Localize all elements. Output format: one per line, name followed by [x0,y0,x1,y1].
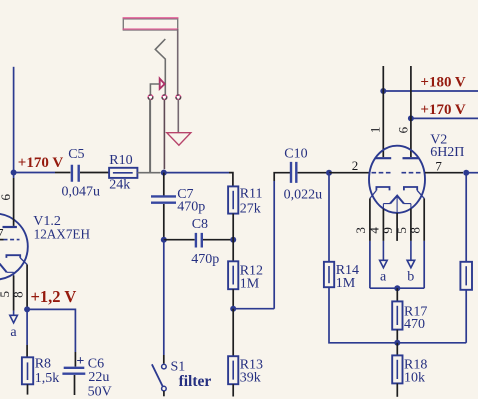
wire node to R8 [26,309,28,345]
svg-text:0,022u: 0,022u [284,188,323,203]
wire from jack sleeve terminal down [177,100,179,133]
heater V1.2 [0,261,7,273]
resistor R12 [228,261,238,289]
wire node E to V2 grid pin 2 [329,172,369,174]
capacitor C7 [151,196,176,202]
node +170V junction [11,170,17,176]
plate V2 left [375,157,391,159]
arrow a [380,260,388,267]
svg-text:8: 8 [10,291,25,298]
node pin6/+170 [408,115,414,121]
svg-text:7: 7 [0,225,4,240]
wire heater pin 5 [410,209,412,241]
plate V1.2 [3,226,17,228]
wire from jack tip terminal down [163,100,165,170]
svg-text:b: b [407,269,414,284]
wire node F to right resistor [465,173,467,262]
wire node A down to C7 [163,173,165,196]
svg-text:12AX7EH: 12AX7EH [34,227,91,242]
wire node D to R13 [232,309,234,357]
svg-text:1M: 1M [240,276,260,291]
wire R18 down [396,383,398,396]
svg-text:470: 470 [404,317,425,332]
resistor R18 [392,355,402,383]
node cathode V1.2 [24,306,30,312]
svg-text:+: + [76,354,84,369]
capacitor C5 [72,165,79,182]
resistor R (right, label off-canvas) [460,262,472,290]
svg-text:6: 6 [396,126,411,133]
node F [463,170,469,176]
resistor R13 [228,356,238,384]
+170 V rail [411,117,478,119]
svg-text:1: 1 [367,127,382,134]
wire cathode pin 8 [26,265,28,310]
svg-text:4: 4 [367,227,382,234]
grid V2 left (pin 2) [372,172,393,174]
node B [161,237,167,243]
heater V2 [390,196,404,204]
svg-text:a: a [380,269,387,284]
capacitor C6 (electrolytic) [62,368,85,374]
wire jack sleeve (right vertical) [177,29,179,95]
svg-text:27k: 27k [240,202,261,217]
capacitor C8 [196,233,202,248]
jack switch arrow [160,79,165,89]
svg-text:+170 V: +170 V [18,155,64,171]
wire right resistor to bottom rail [465,290,467,343]
wire +170V feed (left vertical) [13,67,15,173]
resistor R17 [392,301,402,329]
jack tip lever [155,39,165,95]
node cathode V2 [394,285,400,291]
wire heater pin 4 [382,209,384,241]
svg-text:50V: 50V [88,384,112,399]
wire bottom rail [394,342,466,344]
wire plate lead pin 1 [382,66,384,157]
svg-text:R11: R11 [240,186,263,201]
wire R17 to node G [396,330,398,343]
capacitor C10 [291,162,296,183]
wire cathode pin 3 [369,198,371,241]
svg-text:22u: 22u [88,370,109,385]
resistor R8 [22,357,33,384]
wire node C to R12 [232,240,234,262]
plate V2 right [403,157,419,159]
wire cathode net [370,287,424,289]
wire C7 to node B [163,204,165,240]
wire R13 down [232,384,234,396]
svg-text:24k: 24k [109,178,130,193]
resistor R14 [324,262,334,287]
arrow a (heater supply) [10,315,18,323]
wire to switch arrow [150,84,159,95]
node G [394,340,400,346]
svg-text:1M: 1M [336,276,356,291]
svg-text:a: a [10,325,17,340]
wire R11 to node C [232,214,234,240]
cathode V1.2 [6,255,20,258]
wire node F to right edge [466,172,478,174]
cathode V2 right [404,187,417,190]
wire from jack switch terminal down [150,100,160,173]
grid V1.2 (pin 7) [0,239,4,241]
node D [230,306,236,312]
wire node D to C10 branch [233,181,274,309]
wire cathode pin 8 [423,198,425,241]
svg-text:470p: 470p [191,252,219,267]
wire node B down to S1 [163,240,165,355]
wire C5 to R10 [80,172,109,174]
svg-text:2: 2 [352,158,359,173]
wire node A to R11 [164,172,229,174]
wire shield pin 9 [396,197,398,213]
wire R14 to bottom rail [329,287,394,343]
svg-text:C5: C5 [68,147,84,162]
wire C6 down [74,375,76,395]
node C [230,237,236,243]
wire node B to C8 [164,239,195,241]
svg-text:1,5k: 1,5k [35,371,60,386]
jack body rectangle [123,18,177,31]
arrow b [407,260,415,267]
svg-text:6: 6 [0,193,13,200]
wire plate lead pin 6 [13,173,15,178]
wire node G to R18 [396,343,398,356]
svg-text:+170 V: +170 V [420,102,466,118]
wire node to C6 [27,309,75,352]
node pin1/+180 [380,88,386,94]
wire pin 7 to node F [425,172,463,174]
svg-text:9: 9 [380,227,395,234]
wire R12 to node D [232,289,234,309]
wire C10 to node E [298,172,329,174]
svg-text:C10: C10 [284,147,307,162]
svg-text:+1,2 V: +1,2 V [31,287,77,306]
wire heater pin 5 [13,275,15,310]
jack terminal circles [148,95,153,100]
svg-text:0,047u: 0,047u [62,184,101,199]
tube V2 envelope [369,146,425,213]
svg-text:+180 V: +180 V [420,75,466,91]
cathode V2 left [376,187,389,190]
grid V2 right (pin 7) [402,172,423,174]
wire node to R17 [396,288,398,301]
wire R10 to jack switch [137,100,150,173]
wire node E to R14 [328,173,330,262]
svg-text:10k: 10k [404,371,425,386]
node A main junction [161,170,167,176]
tube V1.2 envelope [0,214,28,280]
node E [326,170,332,176]
ground [167,133,191,146]
resistor R10 [109,168,137,178]
switch S1 [162,364,167,369]
svg-text:8: 8 [407,227,422,234]
svg-text:R8: R8 [35,357,51,372]
svg-text:C8: C8 [192,217,208,232]
wire R8 down [27,384,29,394]
svg-text:39k: 39k [240,370,261,385]
wire C8 to node C [203,239,233,241]
resistor R11 [228,186,238,213]
svg-text:filter: filter [179,373,212,390]
svg-text:R10: R10 [109,153,132,168]
+180 V rail [383,90,478,92]
svg-text:7: 7 [435,159,442,174]
svg-text:470p: 470p [177,199,205,214]
wire +170V to C5 [14,172,55,174]
wire plate lead pin 6 [410,66,412,157]
